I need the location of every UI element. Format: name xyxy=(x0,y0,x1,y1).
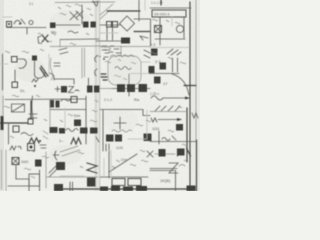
squiggle label xyxy=(61,99,71,101)
wire faint top-left shelf xyxy=(3,16,12,18)
wire horizontal under xyxy=(96,40,122,42)
value label 19 xyxy=(123,78,127,80)
value label 25 xyxy=(180,62,186,64)
value label 20 xyxy=(152,19,158,21)
wire vertical left xyxy=(8,124,10,144)
value label 2 xyxy=(66,5,71,7)
wire vertical drop xyxy=(138,0,140,21)
component box outline xyxy=(29,174,40,186)
value label 35 xyxy=(130,164,136,166)
label squiggle xyxy=(21,133,33,136)
wire stub xyxy=(59,40,61,48)
arrow test point xyxy=(140,36,148,40)
left margin line xyxy=(2,54,4,90)
bottom dense block1 xyxy=(100,187,108,192)
box B dark xyxy=(87,178,96,187)
resistor R7 box xyxy=(13,126,19,132)
wire faint right of shield xyxy=(141,61,150,63)
tick dark xyxy=(160,0,162,5)
left edge lower faint xyxy=(1,150,3,189)
relay K8 block b xyxy=(56,101,60,108)
value label 1 xyxy=(58,7,61,9)
arrowhead mid xyxy=(177,118,182,121)
S2 X xyxy=(13,158,19,164)
label M dot xyxy=(32,79,38,82)
plus mark xyxy=(55,87,60,92)
relay K7 block xyxy=(154,77,161,84)
capacitor C5 plates xyxy=(173,58,178,72)
relay K5 block xyxy=(94,86,100,93)
value label 34 xyxy=(116,160,120,162)
label M2 squiggle xyxy=(151,96,163,100)
value label 23 xyxy=(150,52,157,54)
wire shelf xyxy=(54,79,74,84)
wire R2 to bus xyxy=(56,24,80,26)
wire arrowed line xyxy=(163,97,190,99)
wire dark band xyxy=(112,88,150,90)
contact marks xyxy=(54,63,60,66)
node dot A xyxy=(20,23,22,25)
dense row block2 xyxy=(59,128,65,134)
capacitor C2 block xyxy=(121,38,130,44)
wire tick to border xyxy=(184,85,196,87)
wire diagonal feed xyxy=(100,4,113,19)
IC U1 block xyxy=(117,84,125,92)
label mid squiggle xyxy=(68,31,78,33)
frame bottom border xyxy=(57,188,190,190)
label percent xyxy=(59,48,68,54)
wire header line xyxy=(150,7,191,9)
relay K8 block a xyxy=(50,100,55,108)
value label 18 xyxy=(114,75,121,77)
wire box right drop xyxy=(183,17,185,38)
value label 8 xyxy=(45,40,52,42)
wire under caps xyxy=(149,73,179,75)
bottom dense block2 xyxy=(111,186,120,191)
value label 39 xyxy=(178,106,182,108)
diagonal marks xyxy=(49,166,57,177)
IC U4 block xyxy=(106,135,114,142)
wire left bus xyxy=(100,24,120,26)
bold M mark2 xyxy=(71,138,81,144)
terminal M3 xyxy=(92,1,98,6)
relay K6 block xyxy=(151,49,158,56)
switch S1 parallelogram xyxy=(12,104,25,112)
resistor R8 block xyxy=(74,120,81,127)
value label 36 xyxy=(112,166,115,168)
dense row squiggle xyxy=(66,129,78,132)
wire dark vertical bar xyxy=(30,101,32,118)
value label 29 xyxy=(10,136,14,138)
resistor R5 block xyxy=(61,86,67,93)
left scan edge shading xyxy=(0,0,4,191)
module box2 xyxy=(128,179,141,186)
wire faint above bottom band xyxy=(103,158,105,176)
page fold band xyxy=(94,0,101,191)
node dot xyxy=(39,140,41,142)
wire under chevrons xyxy=(150,111,186,113)
fold band line a xyxy=(95,0,97,191)
percent marks right xyxy=(144,50,150,58)
wire vertical pair left xyxy=(107,27,113,40)
value label 12 xyxy=(5,51,10,53)
value label 26 xyxy=(95,100,98,102)
bottom dense block3 xyxy=(123,187,133,192)
X mark xyxy=(147,151,153,157)
wire big arc xyxy=(172,74,189,95)
squiggle value xyxy=(75,90,79,91)
capacitor C3 block xyxy=(32,56,37,61)
value label 46 xyxy=(80,166,83,168)
wire right vertical xyxy=(39,170,41,191)
terminal box xyxy=(71,97,77,103)
wire hook xyxy=(17,59,26,68)
wire vertical drop xyxy=(158,131,160,144)
frame right border xyxy=(189,2,191,191)
label pound xyxy=(53,151,59,160)
value label 7 xyxy=(38,33,43,35)
IC U3 block xyxy=(139,84,148,92)
value label 13 xyxy=(22,51,29,53)
terminal box small xyxy=(28,119,33,124)
wire stub down xyxy=(26,28,28,35)
dense row block3 xyxy=(80,128,88,134)
IC U6 block xyxy=(144,134,152,142)
resistor R3 top box xyxy=(12,57,18,63)
relay contacts K2 xyxy=(83,22,89,28)
value label 38 xyxy=(136,124,143,126)
inner squiggle text xyxy=(115,67,131,70)
wire double vertical xyxy=(82,48,85,78)
wire heavy horizontal xyxy=(107,10,140,12)
value label 43 xyxy=(24,168,31,170)
wire shelf xyxy=(100,110,150,116)
Z diagonal mark xyxy=(69,87,74,93)
wire faint lower xyxy=(50,45,100,48)
wire shelf xyxy=(50,109,86,111)
resistor R10 block xyxy=(56,162,65,170)
value label 54 xyxy=(36,95,40,97)
resistor R12 block xyxy=(187,186,196,192)
wire long vertical xyxy=(85,96,87,144)
left edge upper faint xyxy=(2,96,4,116)
wire arrow mid xyxy=(158,119,181,121)
value label 30 xyxy=(4,106,10,108)
relay K4 block xyxy=(87,86,93,93)
paper noise overlay xyxy=(0,0,200,191)
value label 4 xyxy=(87,8,91,10)
shield inner shading xyxy=(109,57,140,84)
crystal Y1 marks xyxy=(70,11,83,20)
shield outline rounded xyxy=(108,56,141,85)
wire arc xyxy=(49,73,54,80)
wire vertical long xyxy=(108,151,110,178)
value label 44 xyxy=(31,176,35,178)
page right edge line xyxy=(195,0,197,140)
wire pair vertical xyxy=(70,182,73,191)
marks right of fuse xyxy=(40,145,46,148)
squiggle pair xyxy=(167,49,181,55)
resistor R11 block xyxy=(54,184,63,191)
squiggle label long xyxy=(112,130,132,132)
wire right col stub xyxy=(171,17,173,26)
value label 9 xyxy=(52,33,56,35)
value label 48 xyxy=(141,160,148,162)
wire vertical left xyxy=(102,110,104,144)
IC U2 block xyxy=(127,84,135,92)
dark mark GE xyxy=(87,163,97,173)
enclosure box xyxy=(150,171,176,192)
wire y73 extension xyxy=(130,73,149,75)
resistor R4 bottom box xyxy=(12,82,18,88)
module box1 xyxy=(112,179,125,186)
resistor R9 block xyxy=(176,124,183,131)
wire hook right xyxy=(35,73,45,78)
contact marks xyxy=(29,114,37,118)
page right edge dark lower xyxy=(196,140,198,191)
wire vertical pair bottom xyxy=(110,150,112,177)
left margin line lower xyxy=(5,150,7,191)
wire shelf bottom xyxy=(100,176,148,178)
cluster dots left xyxy=(101,74,107,80)
value label 32 xyxy=(30,150,35,152)
wire bend vertical xyxy=(32,96,33,118)
value label 52 xyxy=(96,55,101,57)
arrowhead xyxy=(185,97,190,100)
wire long diagonal xyxy=(109,154,137,172)
wire vertical center xyxy=(128,74,130,96)
dense row block4 xyxy=(90,128,98,134)
wire bottom-left shelf xyxy=(46,176,98,178)
dense row block1 xyxy=(50,127,58,133)
value label 42 xyxy=(68,114,73,116)
terminal TB1-2 xyxy=(113,22,118,28)
faint cage right xyxy=(128,110,147,139)
arrow heavy stroke xyxy=(40,66,48,77)
right page edge shading xyxy=(192,0,200,191)
value label 5 xyxy=(60,13,66,15)
lamp DS1 xyxy=(29,21,33,25)
wire bottom of section xyxy=(155,38,185,40)
value label 22 xyxy=(175,22,180,24)
squiggle tilde xyxy=(179,165,185,167)
cluster marks under diamond xyxy=(102,46,121,53)
wire lower shelf xyxy=(8,185,29,187)
wire faint left col xyxy=(48,54,50,76)
fuse dot xyxy=(30,146,33,149)
relay K1 box xyxy=(7,22,12,28)
label M& xyxy=(10,146,21,150)
wire shelf top xyxy=(5,98,86,101)
value label 47 xyxy=(140,150,145,152)
frame top faint line xyxy=(55,1,115,4)
capacitor C6 block xyxy=(35,160,42,167)
T1 X mark xyxy=(155,26,161,32)
value label 16 xyxy=(118,59,121,61)
cross tick vertical xyxy=(119,117,121,129)
capacitor C4 block xyxy=(149,66,155,73)
wire faint mid low xyxy=(0,63,8,65)
wire shelf xyxy=(150,168,177,170)
bridge rectifier CR2 diamond xyxy=(120,16,135,31)
wire arrow right xyxy=(155,153,175,155)
value label 11 xyxy=(86,33,89,35)
value label 53 xyxy=(12,95,19,97)
wire y88 extension xyxy=(100,88,112,90)
value label 14 xyxy=(40,49,44,51)
shield feed wire xyxy=(120,46,122,56)
value label 45 xyxy=(78,152,84,154)
cross tick horizontal xyxy=(114,122,126,124)
value label 28 xyxy=(90,120,97,122)
bracket marks lower xyxy=(95,69,97,76)
node dot B xyxy=(103,58,105,60)
wire vertical bus xyxy=(81,5,83,24)
wire faint under diamond xyxy=(100,32,118,34)
fold band line b xyxy=(99,0,101,191)
Z mark xyxy=(169,163,178,173)
switch S2 box xyxy=(12,158,19,165)
relay contacts K3 xyxy=(91,22,97,28)
shield top scallops xyxy=(110,55,134,57)
diode CR1 xyxy=(42,35,48,42)
bracket marks upper xyxy=(95,56,97,62)
wire wavy left xyxy=(50,58,53,80)
wire box left drop xyxy=(159,17,161,45)
wire diamond right xyxy=(134,18,150,20)
wire heavy stub xyxy=(134,31,150,33)
wire vertical stub xyxy=(88,78,90,85)
wire lower horizontal xyxy=(60,38,99,41)
marks right xyxy=(43,131,48,139)
bold M mark xyxy=(29,138,39,143)
value label 49 xyxy=(184,160,188,162)
IC U5 block xyxy=(115,135,122,142)
scatter marks top xyxy=(102,50,113,57)
value label 41 xyxy=(60,120,63,122)
wire main horizontal xyxy=(7,27,46,29)
wire S2 down xyxy=(15,165,17,179)
paper background xyxy=(0,0,200,191)
wire faint bottom mid xyxy=(60,175,84,177)
wire heavy horizontal xyxy=(0,122,28,124)
value label 24 xyxy=(168,57,172,59)
value label 27 xyxy=(92,110,97,112)
squiggle cluster xyxy=(162,136,176,141)
chevrons row xyxy=(155,106,180,111)
K1 dot xyxy=(8,23,10,25)
wire long bottom shelf xyxy=(150,141,196,143)
contact bracket xyxy=(38,36,42,44)
value label 37 xyxy=(146,120,151,122)
fuse F1 box xyxy=(28,144,35,151)
capacitor C7 box xyxy=(159,149,166,157)
value label 31 xyxy=(44,119,47,121)
value label 33 xyxy=(42,156,49,158)
transformer T1 xyxy=(155,26,162,33)
label w xyxy=(151,118,157,122)
value label 50 xyxy=(182,144,188,146)
tick cluster xyxy=(103,144,109,151)
wire vertical bottom-left col xyxy=(45,152,47,188)
motor B1 xyxy=(176,25,183,32)
wire C3 down xyxy=(34,61,36,75)
value label 40 xyxy=(168,130,174,132)
frame right border inner segment xyxy=(186,108,188,162)
wire down xyxy=(14,70,16,82)
hatch squiggles xyxy=(60,146,80,156)
smudge patches xyxy=(14,58,46,82)
wire bend xyxy=(16,179,29,191)
value label 21 xyxy=(166,20,169,22)
title box xyxy=(152,10,186,17)
left margin dark bar xyxy=(1,116,4,130)
resistor R6 box xyxy=(160,63,167,70)
value label 51 xyxy=(108,47,111,49)
resistor R2 body xyxy=(50,23,56,29)
wire vertical right of diamond xyxy=(150,19,152,46)
wire vertical faint xyxy=(144,0,146,10)
bracket hook xyxy=(178,148,191,156)
bottom dense block4 xyxy=(136,186,147,191)
coil squiggle xyxy=(14,19,25,24)
bracket dark box xyxy=(178,149,185,156)
wire vertical mid col xyxy=(64,108,66,128)
value label 17 xyxy=(131,62,136,64)
wire right row divider xyxy=(150,47,189,49)
node dot xyxy=(34,85,36,87)
value label 10 xyxy=(70,43,76,45)
border marks M xyxy=(192,113,198,118)
wire horizontal across mid xyxy=(100,46,150,48)
value label 15 xyxy=(105,61,111,63)
tick mark xyxy=(96,137,99,142)
wire long vertical left col xyxy=(49,100,51,127)
value label 3 xyxy=(75,4,82,6)
terminal TB1-1 xyxy=(107,22,112,28)
value label 6 xyxy=(90,14,93,16)
